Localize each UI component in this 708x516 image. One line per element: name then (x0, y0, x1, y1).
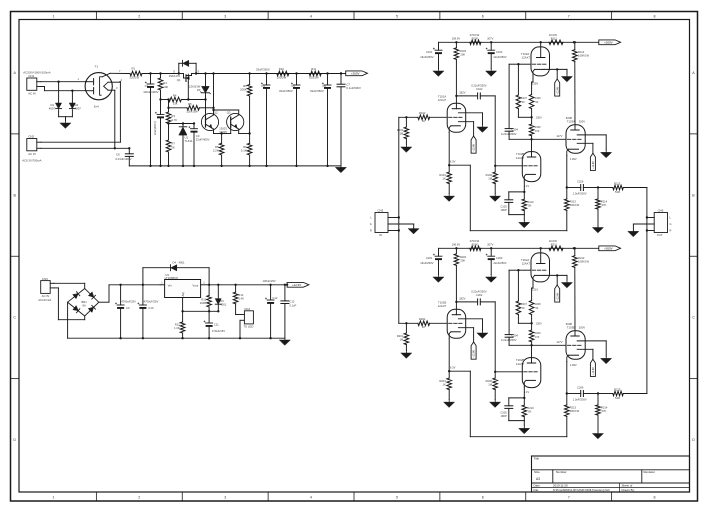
svg-text:12AU7: 12AU7 (438, 98, 447, 102)
svg-text:C1: C1 (145, 84, 149, 88)
resistor R10 (267, 67, 297, 79)
svg-text:1.0uF/200V: 1.0uF/200V (573, 398, 587, 402)
resistor R1 (130, 67, 143, 80)
svg-text:0.1uF: 0.1uF (289, 303, 296, 307)
diode D4 (143, 260, 210, 286)
ground (444, 400, 455, 408)
svg-text:12AX7: 12AX7 (516, 156, 525, 160)
svg-text:1K: 1K (422, 119, 425, 123)
wire cathode out (566, 392, 581, 394)
svg-text:130V: 130V (536, 322, 542, 326)
capacitor C4 (256, 68, 270, 168)
svg-text:R108: R108 (535, 97, 542, 100)
svg-text:180P: 180P (501, 208, 507, 212)
svg-text:C11: C11 (214, 323, 219, 327)
svg-text:D3: D3 (197, 88, 201, 92)
wire (54, 288, 85, 320)
svg-text:R211: R211 (551, 242, 558, 246)
svg-text:20K: 20K (460, 259, 465, 263)
svg-text:BR1: BR1 (82, 300, 88, 304)
wire input (399, 116, 418, 118)
ground (628, 224, 639, 237)
wire R4 node (161, 98, 190, 100)
svg-text:5.1K: 5.1K (241, 148, 247, 152)
svg-text:AC12V/2A: AC12V/2A (38, 298, 51, 302)
svg-text:33K: 33K (173, 101, 178, 105)
junction (452, 242, 461, 249)
svg-text:33uF/350V: 33uF/350V (310, 89, 324, 93)
capacitor C106 (573, 180, 600, 196)
svg-text:C206: C206 (577, 386, 584, 390)
wire feedback (470, 371, 567, 437)
svg-text:D4: D4 (173, 260, 177, 264)
svg-text:C: C (13, 316, 16, 320)
svg-text:220/1W: 220/1W (130, 75, 140, 79)
capacitor C105 (500, 192, 524, 215)
svg-text:0.22uF/250V: 0.22uF/250V (501, 338, 517, 342)
svg-text:5K: 5K (535, 307, 538, 310)
wire input bus (398, 117, 400, 323)
ground (593, 432, 604, 438)
resistor R14 (233, 284, 244, 315)
svg-text:4700uF/25V: 4700uF/25V (121, 300, 136, 304)
capacitor C2 (153, 98, 164, 167)
svg-text:1K/1W: 1K/1W (549, 239, 558, 243)
capacitor C202 (456, 289, 495, 305)
diode D1 (49, 103, 62, 117)
svg-text:5K: 5K (535, 101, 538, 104)
wire (169, 122, 196, 124)
svg-text:R10: R10 (279, 67, 285, 71)
svg-text:4700uF/25V: 4700uF/25V (144, 300, 159, 304)
wire cathode out (566, 186, 581, 188)
svg-text:R111: R111 (551, 36, 558, 40)
svg-text:47K: 47K (602, 409, 607, 413)
svg-text:7: 7 (568, 496, 570, 500)
svg-text:0.1uF/630V: 0.1uF/630V (346, 86, 361, 90)
power tube T103B (566, 322, 606, 394)
resistor R5 (169, 102, 215, 114)
svg-text:R213: R213 (570, 405, 577, 409)
resistor R115 (598, 181, 647, 194)
svg-text:R114: R114 (601, 199, 608, 203)
resistor R201 (397, 322, 409, 350)
ground (401, 351, 412, 359)
svg-text:182V: 182V (459, 296, 465, 300)
svg-text:CN2: CN2 (28, 135, 34, 139)
capacitor C103 (486, 42, 507, 68)
svg-text:1.4K: 1.4K (238, 296, 244, 300)
ground (486, 275, 497, 283)
svg-text:200R: 200R (200, 301, 206, 305)
svg-text:Revision: Revision (644, 470, 656, 474)
junction (452, 36, 461, 43)
svg-text:4: 4 (310, 14, 312, 18)
svg-text:R206: R206 (486, 379, 493, 383)
net flag heater (471, 342, 476, 359)
svg-text:33uF/350V: 33uF/350V (256, 68, 270, 72)
svg-text:R210: R210 (527, 406, 534, 410)
resistor R9 (241, 143, 252, 167)
svg-text:R13: R13 (201, 297, 206, 301)
svg-text:C5: C5 (291, 84, 295, 88)
resistor R6 (240, 72, 252, 143)
connector CN5 (370, 208, 414, 237)
svg-text:R101: R101 (397, 128, 404, 132)
wire (494, 302, 522, 373)
power flag +12.6V (286, 282, 309, 287)
svg-text:C8: C8 (116, 152, 120, 156)
bridge rectifier BR1 (68, 289, 99, 317)
capacitor C7 (337, 72, 361, 166)
resistor R12 (174, 311, 185, 339)
junction 130V (536, 322, 542, 326)
capacitor C104 (501, 127, 518, 139)
svg-text:207V: 207V (487, 36, 493, 40)
svg-text:47K: 47K (535, 336, 540, 339)
power flag +260V (599, 40, 621, 45)
svg-text:100/2W: 100/2W (309, 75, 319, 79)
resistor R208 (529, 301, 541, 325)
triode T102A (518, 41, 567, 94)
svg-text:180P: 180P (501, 414, 507, 418)
svg-text:3: 3 (224, 496, 226, 500)
svg-text:5: 5 (396, 496, 398, 500)
triode T202B (516, 345, 541, 399)
svg-text:6x4: 6x4 (94, 105, 99, 109)
ground (433, 275, 444, 283)
svg-text:4: 4 (310, 496, 312, 500)
svg-text:13003: 13003 (219, 126, 227, 130)
power flag +260V (599, 246, 621, 251)
svg-text:1K: 1K (422, 325, 425, 329)
wire B+ rail (439, 247, 599, 249)
capacitor C9 (115, 284, 136, 340)
svg-text:12AX7: 12AX7 (522, 262, 531, 266)
wire Vout rail (209, 284, 287, 286)
wire (110, 72, 130, 74)
svg-text:0.01uF/400V: 0.01uF/400V (115, 157, 131, 161)
svg-text:R100: R100 (472, 36, 479, 40)
svg-text:8: 8 (654, 496, 656, 500)
svg-text:C6: C6 (322, 84, 326, 88)
wire grid (509, 269, 520, 335)
svg-text:C10: C10 (148, 306, 153, 310)
wire (523, 421, 525, 426)
svg-text:R202: R202 (419, 317, 426, 321)
svg-text:G: G (370, 222, 372, 226)
resistor R209 (529, 323, 541, 346)
svg-text:1K/1W: 1K/1W (549, 33, 558, 37)
wire B+ rail (439, 41, 599, 43)
svg-text:4.7K: 4.7K (171, 118, 177, 122)
resistor R202 (418, 317, 430, 329)
resistor R8 (213, 132, 224, 167)
svg-text:1: 1 (52, 496, 54, 500)
svg-text:33uF/350V: 33uF/350V (279, 89, 293, 93)
junction (573, 247, 575, 249)
wire 117V (509, 340, 566, 345)
resistor R206 (486, 372, 498, 400)
svg-text:100/2W: 100/2W (277, 75, 287, 79)
wire (167, 100, 169, 110)
svg-text:196.6V: 196.6V (452, 242, 461, 246)
svg-text:182V: 182V (459, 90, 465, 94)
svg-text:1.0uF/200V: 1.0uF/200V (573, 192, 587, 196)
triode T101A (430, 90, 483, 165)
capacitor C204 (501, 333, 518, 345)
svg-text:117V: 117V (556, 340, 562, 344)
wire cathode (448, 366, 470, 373)
svg-text:1K: 1K (443, 382, 446, 386)
svg-text:8: 8 (654, 14, 656, 18)
ground (477, 125, 488, 133)
svg-text:6.3V: 6.3V (450, 160, 456, 164)
svg-text:4001: 4001 (220, 302, 226, 306)
power flag +260V (340, 71, 368, 76)
connector CN6 (633, 208, 671, 237)
svg-text:51R: 51R (615, 396, 620, 400)
wire (494, 96, 522, 167)
svg-text:1.0K: 1.0K (174, 326, 180, 330)
svg-text:C201: C201 (426, 256, 433, 260)
svg-text:196.6V: 196.6V (452, 36, 461, 40)
svg-text:5: 5 (396, 14, 398, 18)
svg-text:Date:: Date: (534, 484, 541, 488)
svg-text:R106: R106 (486, 173, 493, 177)
svg-text:0.22uF/250V: 0.22uF/250V (471, 289, 487, 293)
ground (444, 194, 455, 202)
svg-text:5K: 5K (528, 410, 531, 414)
svg-text:Sheet of: Sheet of (622, 484, 633, 488)
svg-text:200V: 200V (579, 120, 585, 124)
svg-text:+12.6V: +12.6V (473, 144, 476, 152)
resistor R109 (529, 117, 541, 140)
resistor R113 (565, 188, 580, 231)
svg-text:1K: 1K (522, 101, 525, 104)
resistor R4 (167, 94, 205, 106)
connector CN4 (236, 307, 254, 340)
svg-text:TO LED: TO LED (243, 324, 253, 328)
ground (519, 426, 530, 434)
ground (336, 166, 347, 173)
svg-text:5K: 5K (171, 146, 175, 150)
svg-text:R207: R207 (521, 303, 528, 306)
resistor R110 (522, 192, 534, 215)
svg-text:+260V: +260V (604, 41, 613, 45)
svg-text:22uF(400V): 22uF(400V) (153, 121, 157, 135)
svg-text:4007: 4007 (75, 107, 82, 111)
wire (54, 283, 85, 288)
resistor R11 (297, 67, 342, 79)
svg-text:7: 7 (568, 14, 570, 18)
svg-text:12AX7: 12AX7 (522, 56, 531, 60)
svg-text:1: 1 (52, 14, 54, 18)
svg-text:20K/1W: 20K/1W (570, 409, 580, 413)
svg-text:C12: C12 (272, 296, 277, 300)
svg-text:R11: R11 (311, 67, 316, 71)
svg-text:10K: 10K (163, 85, 168, 89)
svg-text:R208: R208 (535, 303, 542, 306)
resistor R13 (200, 285, 212, 313)
wire input (399, 322, 418, 324)
regulator U3 LT1085CP (160, 273, 209, 311)
capacitor C206 (573, 386, 600, 402)
svg-text:T1: T1 (95, 64, 99, 68)
svg-text:2013-11-29: 2013-11-29 (553, 484, 568, 488)
svg-text:C204: C204 (512, 333, 519, 337)
net flag heater (590, 153, 595, 170)
svg-text:AC200V-260V/100mA: AC200V-260V/100mA (23, 71, 50, 75)
svg-text:C103: C103 (496, 50, 503, 54)
wire cathode (448, 160, 470, 167)
mosfet Q1 (169, 60, 200, 99)
ground (401, 145, 412, 153)
svg-text:AC IN: AC IN (28, 152, 35, 156)
svg-text:27K/1W: 27K/1W (470, 239, 480, 243)
capacitor C203 (486, 248, 507, 274)
svg-text:G: G (670, 222, 672, 226)
svg-text:5K: 5K (528, 204, 531, 208)
svg-text:R: R (370, 229, 372, 233)
net flag heater (590, 359, 595, 376)
ground (490, 400, 501, 408)
resistor R101 (397, 116, 409, 144)
svg-text:D: D (173, 69, 175, 73)
svg-text:+260V: +260V (351, 72, 360, 76)
svg-text:CN6: CN6 (658, 208, 664, 212)
svg-text:R103: R103 (460, 49, 467, 53)
resistor R114 (596, 188, 608, 227)
resistor R108 (529, 95, 541, 119)
svg-text:1.09V: 1.09V (570, 157, 577, 161)
svg-text:6.3V: 6.3V (450, 366, 456, 370)
svg-text:6: 6 (482, 14, 484, 18)
svg-text:Drawn By:: Drawn By: (622, 488, 636, 492)
svg-text:C101: C101 (426, 50, 433, 54)
svg-text:1Z6.8/1W: 1Z6.8/1W (189, 85, 201, 89)
svg-text:6: 6 (482, 496, 484, 500)
title block (532, 456, 690, 492)
svg-text:A3: A3 (536, 477, 540, 481)
wire grid (509, 63, 520, 129)
svg-text:C203: C203 (496, 256, 503, 260)
wire (41, 81, 85, 83)
svg-text:R209: R209 (535, 332, 542, 335)
ground (477, 331, 488, 339)
ground (433, 69, 444, 77)
capacitor C13 (281, 284, 297, 339)
svg-text:CN5: CN5 (377, 208, 383, 212)
svg-text:R113: R113 (570, 199, 577, 203)
svg-text:D6: D6 (220, 299, 224, 303)
capacitor C3 (189, 124, 210, 168)
svg-text:2: 2 (138, 14, 140, 18)
svg-text:LT1085CP: LT1085CP (165, 276, 179, 280)
wire (68, 302, 285, 338)
svg-text:R215: R215 (614, 387, 621, 391)
svg-text:R: R (670, 229, 672, 233)
power tube T103A (566, 116, 606, 188)
svg-text:C104: C104 (512, 127, 519, 131)
svg-text:120K/2W: 120K/2W (186, 110, 198, 114)
svg-text:100K/1W: 100K/1W (578, 260, 590, 264)
resistor R213 (565, 394, 580, 437)
resistor R2 (158, 72, 168, 99)
resistor R7 (166, 124, 175, 168)
svg-text:200K: 200K (240, 87, 247, 91)
svg-text:47K: 47K (602, 203, 607, 207)
wire (41, 82, 120, 143)
ground (408, 224, 419, 234)
svg-text:+12.6V: +12.6V (473, 350, 476, 358)
svg-text:Vout: Vout (192, 283, 198, 287)
capacitor C5 (279, 72, 300, 167)
svg-text:C102: C102 (476, 87, 483, 91)
svg-text:100uF/25V: 100uF/25V (263, 279, 276, 283)
svg-text:Vin: Vin (168, 283, 173, 287)
svg-text:117V: 117V (556, 134, 562, 138)
wire (59, 117, 73, 121)
resistor R102 (418, 111, 430, 123)
connector CN2 (22, 135, 41, 163)
svg-text:R214: R214 (601, 405, 608, 409)
svg-text:51R: 51R (615, 190, 620, 194)
shunt reference U1 TL431 (179, 124, 193, 168)
svg-text:4007: 4007 (49, 107, 56, 111)
svg-text:CN4: CN4 (244, 307, 250, 311)
rectifier tube T1 (78, 64, 123, 108)
svg-text:C: C (692, 316, 695, 320)
svg-text:Size: Size (534, 470, 540, 474)
capacitor C11 (204, 311, 225, 339)
junction (487, 36, 493, 43)
svg-text:AC6.3V/700mA: AC6.3V/700mA (22, 158, 41, 162)
triode T102B (516, 139, 541, 193)
connector CN1 (23, 71, 50, 96)
svg-text:12AX7: 12AX7 (516, 362, 525, 366)
resistor R203 (454, 248, 466, 302)
svg-text:22uF/250V: 22uF/250V (493, 55, 506, 59)
svg-text:T103A: T103A (567, 120, 575, 124)
svg-text:R110: R110 (527, 200, 534, 204)
capacitor C6 (310, 72, 331, 167)
resistor R207 (516, 301, 532, 323)
ground (562, 74, 573, 82)
net flag heater (555, 79, 560, 96)
svg-text:C202: C202 (476, 293, 483, 297)
ground (601, 150, 612, 158)
svg-text:R200: R200 (472, 242, 479, 246)
resistor R210 (522, 398, 534, 421)
svg-text:R12: R12 (175, 322, 180, 326)
svg-text:+12.6V: +12.6V (556, 86, 559, 94)
ground (519, 220, 530, 228)
svg-text:C4: C4 (261, 84, 265, 88)
svg-text:R5: R5 (188, 102, 192, 106)
svg-text:D: D (13, 438, 16, 442)
svg-text:2.2K: 2.2K (213, 148, 219, 152)
svg-text:R102: R102 (419, 111, 426, 115)
capacitor C12 (263, 279, 278, 339)
svg-text:R203: R203 (460, 255, 467, 259)
resistor R104 (439, 165, 451, 193)
svg-text:R107: R107 (521, 97, 528, 100)
svg-text:T103B: T103B (567, 326, 575, 330)
svg-text:4001: 4001 (179, 260, 185, 264)
svg-text:R115: R115 (614, 181, 621, 185)
transistor Q3 (212, 109, 251, 135)
